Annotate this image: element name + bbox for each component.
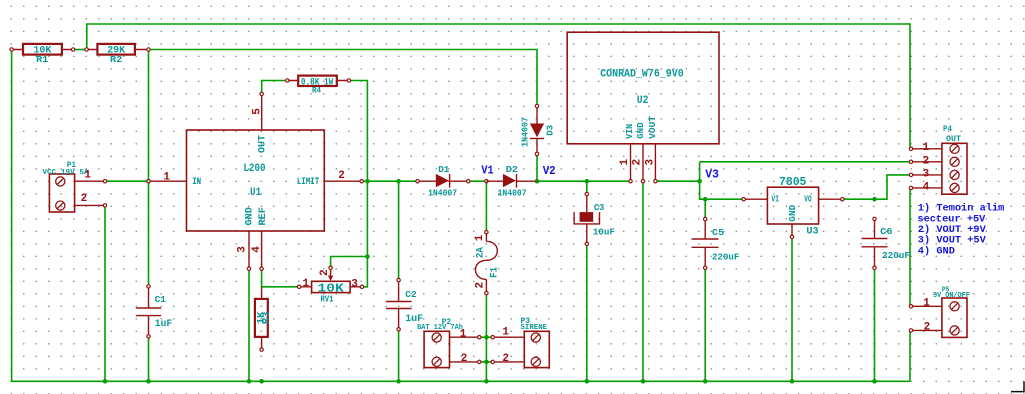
wire V3 top row to P4 pin2 (700, 161, 911, 163)
svg-text:1: 1 (474, 234, 486, 241)
svg-text:5: 5 (251, 108, 263, 115)
wire P1 pin1 to IN junction (105, 180, 149, 182)
svg-text:2: 2 (338, 170, 345, 182)
svg-text:IN: IN (192, 176, 201, 187)
capacitor C5 (692, 217, 740, 269)
wire C5 bottom to bus (704, 268, 706, 382)
wire D3 bottom to node V2 (536, 154, 538, 181)
svg-text:2: 2 (475, 282, 487, 289)
svg-text:CONRAD_W76_9V0: CONRAD_W76_9V0 (600, 69, 684, 81)
svg-text:220uF: 220uF (882, 251, 910, 261)
svg-text:OUT: OUT (946, 134, 961, 144)
svg-text:R1: R1 (36, 54, 49, 65)
diode D3 (520, 104, 556, 155)
wire C2 column (398, 181, 400, 280)
svg-text:3: 3 (923, 169, 930, 181)
note text block (917, 203, 1004, 258)
svg-text:1N4007: 1N4007 (428, 187, 457, 198)
svg-text:1uF: 1uF (155, 319, 173, 330)
wire RV1 pin3 branch (362, 257, 367, 287)
svg-text:OUT: OUT (256, 135, 267, 153)
wire C5 top branch (704, 199, 706, 219)
wire P4 pin4 to P5 pin1 (909, 188, 911, 306)
svg-text:2: 2 (632, 159, 644, 166)
connector P3 SIRENE (491, 317, 549, 367)
svg-text:R4: R4 (312, 87, 321, 96)
svg-text:7805: 7805 (779, 176, 806, 189)
svg-text:C3: C3 (594, 202, 605, 213)
svg-text:1: 1 (303, 278, 310, 290)
svg-text:L200: L200 (243, 163, 265, 175)
svg-text:D3: D3 (545, 125, 555, 136)
svg-text:2A: 2A (476, 247, 487, 258)
svg-text:10K: 10K (318, 281, 345, 295)
capacitor C1 (136, 285, 173, 338)
svg-text:U2: U2 (637, 95, 649, 107)
wire C3 bottom to bus (586, 244, 588, 381)
svg-text:P4: P4 (943, 125, 952, 134)
fuse F1 (474, 231, 500, 295)
svg-text:V3: V3 (705, 169, 719, 182)
wire top rail from R2 junction to P4 pin1 (87, 24, 910, 149)
svg-text:2: 2 (319, 269, 331, 276)
svg-text:U1: U1 (250, 187, 262, 199)
wire P2-P3 row2 (479, 361, 492, 363)
wire C1 bottom to bus (148, 336, 150, 381)
svg-text:2: 2 (924, 322, 931, 334)
svg-text:3: 3 (237, 246, 249, 253)
capacitor C2 (386, 278, 423, 331)
capacitor C6 (862, 217, 911, 269)
resistor R2 (85, 44, 150, 65)
svg-text:VI: VI (771, 195, 779, 205)
wire C3 top branch (586, 181, 588, 194)
wire V1 down to fuse F1 (485, 181, 487, 232)
svg-text:1N4007: 1N4007 (520, 117, 531, 147)
svg-text:C1: C1 (155, 294, 167, 305)
svg-text:VO: VO (804, 195, 812, 205)
svg-text:SIRENE: SIRENE (521, 324, 548, 332)
diode D1 (416, 164, 470, 198)
svg-text:VCC 19V 5A: VCC 19V 5A (42, 169, 89, 177)
svg-text:2: 2 (502, 353, 509, 365)
wire V2 row to U2 VIN (537, 180, 631, 182)
sheet frame corner (1011, 382, 1024, 392)
svg-text:GND: GND (244, 207, 255, 225)
wire C2 bottom to bus (398, 329, 400, 381)
wire U3 GND to bus (791, 237, 793, 381)
svg-text:220uF: 220uF (712, 253, 739, 263)
wire U1 GND down to bus (248, 269, 250, 382)
svg-text:4: 4 (251, 246, 263, 253)
diode D2 (486, 164, 537, 198)
svg-text:3: 3 (644, 159, 656, 166)
svg-text:2: 2 (923, 155, 930, 167)
svg-text:VIN: VIN (625, 124, 635, 139)
svg-text:C5: C5 (712, 227, 725, 238)
svg-text:D2: D2 (506, 164, 519, 175)
svg-text:U3: U3 (806, 227, 818, 238)
wire R2 output to D3 top (149, 50, 538, 107)
connector P4 OUT (909, 125, 967, 194)
regulator U3 7805 (742, 176, 844, 239)
svg-text:F1: F1 (489, 267, 500, 278)
wire R4 right down RV1 column (349, 81, 368, 257)
capacitor C3 polarized (574, 192, 615, 245)
wire R2 column down to C1 (148, 50, 150, 287)
svg-text:1: 1 (619, 159, 631, 166)
wire C6 bottom to bus (874, 268, 876, 382)
svg-text:BAT 12V 7Ah: BAT 12V 7Ah (417, 324, 463, 332)
resistor R4 (286, 76, 351, 96)
wire D1-D2 link node V1 (468, 180, 486, 182)
resistor R3 (255, 287, 272, 352)
wire V3 column and to 7805 VI (700, 162, 744, 199)
svg-text:4: 4 (923, 181, 930, 193)
wire U1 REF to R3 and RV1 pin1 (262, 269, 300, 287)
module U2 CONRAD_W76_9V0 (567, 32, 719, 183)
wire RV1 wiper branch (331, 257, 368, 268)
svg-text:1: 1 (923, 142, 930, 154)
svg-text:3: 3 (351, 279, 358, 291)
wire P1 pin2 down to bus (104, 205, 106, 381)
svg-text:C2: C2 (405, 289, 417, 300)
svg-text:RV1: RV1 (320, 295, 334, 305)
svg-text:4) GND: 4) GND (918, 245, 955, 257)
svg-text:1: 1 (460, 329, 467, 341)
svg-text:LIMIT: LIMIT (297, 176, 320, 187)
resistor R1 (10, 44, 75, 65)
svg-text:1: 1 (163, 172, 170, 184)
svg-text:C6: C6 (880, 226, 893, 237)
potentiometer RV1 (297, 266, 363, 305)
connector P1 (42, 161, 106, 212)
svg-text:2: 2 (81, 193, 88, 205)
wire F1 bottom to bus (485, 293, 487, 381)
wire U2 GND down to bus (642, 181, 644, 381)
svg-text:VOUT: VOUT (648, 115, 658, 139)
svg-text:10uF: 10uF (593, 227, 616, 238)
svg-text:REF: REF (258, 207, 269, 225)
wire LIMIT row to D1 (362, 180, 418, 182)
svg-text:R3: R3 (262, 312, 272, 325)
wire U2 VOUT to node V3 (655, 180, 699, 182)
connector P2 BAT (417, 318, 481, 368)
svg-text:GND: GND (636, 122, 646, 139)
svg-text:V2: V2 (543, 165, 556, 178)
svg-text:D1: D1 (438, 164, 449, 175)
svg-text:5V ON/OFF: 5V ON/OFF (933, 292, 970, 300)
svg-text:1: 1 (502, 326, 509, 338)
svg-text:2: 2 (461, 353, 468, 365)
svg-text:R2: R2 (110, 54, 123, 65)
svg-text:1N4007: 1N4007 (498, 187, 527, 198)
svg-text:V1: V1 (481, 164, 493, 177)
svg-text:GND: GND (787, 205, 798, 222)
wire P2-P3 row1 (479, 336, 492, 338)
op-amp regulator U1 L200 (147, 92, 364, 270)
svg-text:1: 1 (84, 170, 91, 182)
connector P5 5V ON/OFF (909, 287, 970, 338)
wire 7805 VO to C6 and P4 pin3 (842, 175, 911, 199)
wire U1 OUT to R4 left (262, 81, 288, 94)
svg-text:1: 1 (923, 297, 930, 309)
wire left drop R1 to ground bus and bus to P5 pin2 (11, 50, 13, 382)
wire R1-R2 link (73, 49, 87, 51)
